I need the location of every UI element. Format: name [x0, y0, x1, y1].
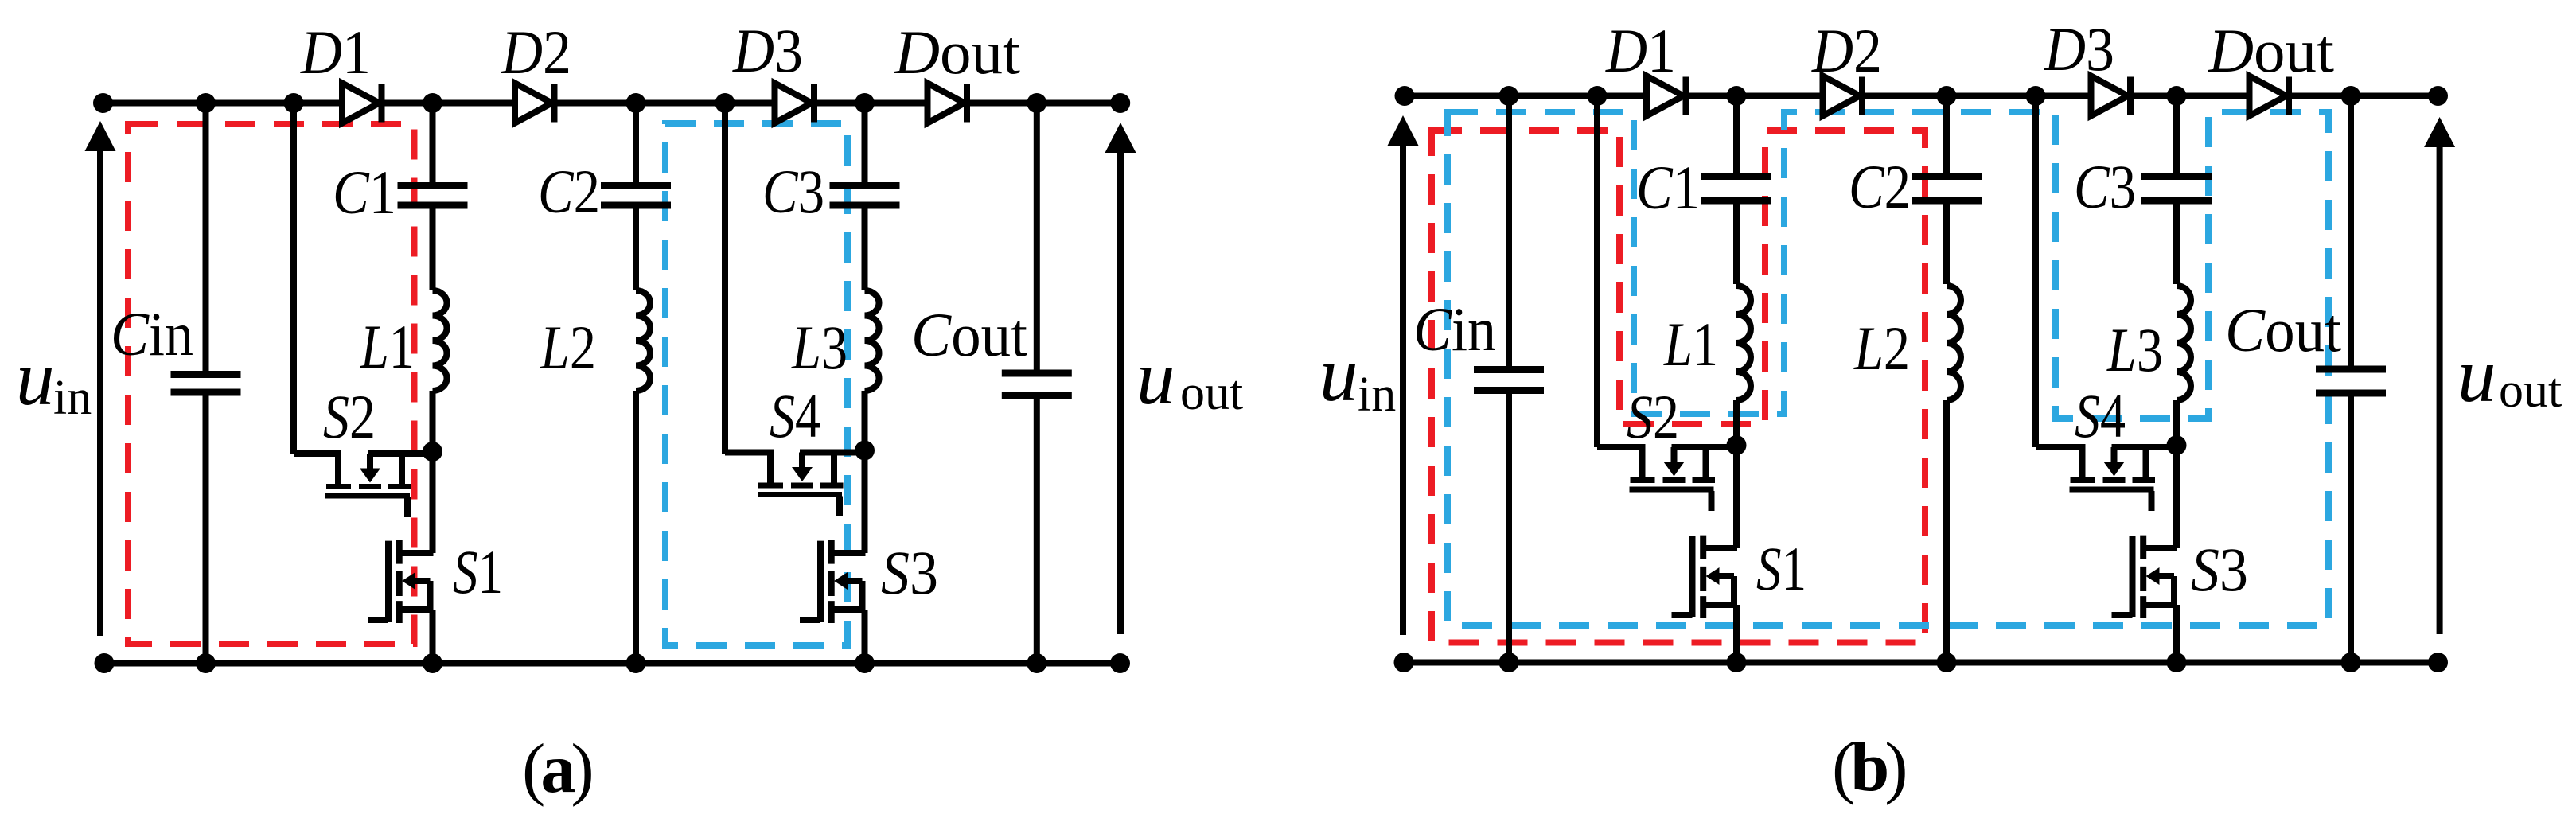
wire S2 branch (a): [290, 103, 297, 454]
wire C3 branch (a): [862, 103, 868, 451]
capacitor C2 (b): [1912, 173, 1982, 180]
junction top rail x=799 (a): [626, 93, 646, 113]
diode D3 (b): [2091, 76, 2129, 116]
diode D2 (a): [515, 84, 552, 123]
svg-text:C2: C2: [538, 157, 600, 226]
node S2-drain junction (a): [423, 442, 442, 462]
svg-text:C2: C2: [1849, 152, 1911, 221]
wire top rail (a): [103, 100, 1120, 107]
svg-text:u: u: [1136, 335, 1175, 420]
junction bottom rail x=3063.5 (b): [2428, 653, 2448, 672]
capacitor C1 (a): [398, 182, 468, 189]
junction top rail x=258.5 (a): [196, 93, 216, 113]
wire top rail (b): [1405, 93, 2438, 99]
inductor L1 (a): [433, 290, 447, 391]
u_out voltage arrow (a): [1105, 123, 1136, 153]
transistor S3 (b): [2173, 446, 2180, 549]
wire C2-L2 branch (b): [1943, 96, 1950, 663]
capacitor C1 (b): [1701, 173, 1771, 180]
svg-text:(b): (b): [1832, 729, 1905, 806]
capacitor Cout (a): [1002, 370, 1072, 377]
u_in voltage arrow (a): [85, 121, 116, 151]
junction top rail x=129.5 (a): [93, 93, 113, 113]
transistor S4 (b): [2112, 444, 2177, 450]
diode Dout (a): [928, 84, 965, 123]
diode D3 (a): [775, 84, 813, 123]
svg-text:C3: C3: [762, 157, 824, 226]
svg-text:u: u: [16, 336, 55, 421]
svg-text:Cin: Cin: [1413, 294, 1496, 364]
inductor L3 (a): [865, 290, 879, 391]
diode D1 (b): [1647, 76, 1684, 116]
wire Cin branch (a): [203, 103, 209, 664]
inductor L2 (a): [636, 290, 650, 391]
u_out voltage arrow (b): [2424, 117, 2455, 147]
svg-text:Dout: Dout: [2208, 16, 2334, 85]
wire C1 branch (b): [1733, 96, 1740, 446]
svg-text:Cout: Cout: [911, 300, 1027, 369]
capacitor C3 (a): [830, 182, 900, 189]
transistor S1 (a): [430, 452, 436, 554]
junction bottom rail x=2954 (b): [2341, 653, 2361, 672]
capacitor Cout (b): [2316, 366, 2386, 373]
svg-text:in: in: [53, 371, 92, 425]
red dashed loop (a): [128, 124, 415, 644]
junction bottom rail x=258.5 (a): [196, 653, 216, 673]
svg-text:u: u: [1319, 332, 1358, 417]
svg-text:L1: L1: [1663, 310, 1718, 379]
svg-text:out: out: [1180, 366, 1243, 420]
svg-text:D1: D1: [300, 18, 371, 87]
svg-text:C3: C3: [2074, 152, 2136, 221]
svg-text:(a): (a): [522, 730, 591, 808]
inductor L3 (b): [2177, 286, 2191, 400]
svg-text:D3: D3: [732, 16, 803, 85]
diode D2 (b): [1823, 76, 1861, 116]
svg-text:S4: S4: [770, 381, 820, 450]
svg-text:S1: S1: [453, 537, 503, 606]
junction top rail x=2954 (b): [2341, 86, 2361, 106]
junction top rail x=2007 (b): [1588, 86, 1608, 106]
svg-text:Cin: Cin: [111, 299, 193, 368]
u_in voltage arrow (b): [1388, 115, 1419, 146]
svg-text:L1: L1: [360, 312, 415, 381]
wire C3 branch (b): [2173, 96, 2180, 446]
junction bottom rail x=1896 (b): [1499, 653, 1519, 672]
transistor S1 (b): [1733, 446, 1740, 549]
svg-text:D2: D2: [501, 18, 571, 87]
node S4-drain junction (a): [855, 441, 875, 461]
wire S2 branch (b): [1594, 96, 1600, 448]
junction bottom rail x=2182 (b): [1727, 653, 1747, 672]
blue dashed loop (b): [1448, 112, 2329, 625]
svg-text:Dout: Dout: [894, 18, 1020, 87]
svg-text:S2: S2: [1627, 382, 1679, 451]
svg-text:L2: L2: [1853, 314, 1910, 383]
wire bottom rail (b): [1404, 660, 2438, 666]
junction top rail x=3063.5 (b): [2428, 86, 2448, 106]
junction top rail x=543.5 (a): [423, 93, 442, 113]
junction top rail x=1086.5 (a): [855, 93, 875, 113]
transistor S2 (a): [368, 450, 433, 457]
svg-text:D3: D3: [2044, 14, 2114, 84]
svg-text:out: out: [2499, 364, 2562, 418]
svg-text:S3: S3: [2191, 535, 2248, 604]
capacitor C3 (b): [2141, 173, 2212, 180]
svg-text:C1: C1: [333, 158, 396, 227]
inductor L1 (b): [1736, 286, 1751, 400]
junction top rail x=2182 (b): [1727, 86, 1747, 106]
wire C2-L2 branch (a): [633, 103, 639, 664]
wire S4 branch (b): [2032, 96, 2039, 448]
node S2-drain junction (b): [1727, 435, 1747, 455]
svg-text:u: u: [2457, 333, 2496, 418]
red dashed loop (b): [1432, 131, 1925, 643]
junction bottom rail x=1086.5 (a): [855, 653, 875, 673]
svg-text:C1: C1: [1636, 153, 1700, 222]
transistor S3 (a): [862, 450, 868, 553]
junction top rail x=1896 (b): [1499, 86, 1519, 106]
junction bottom rail x=1764 (b): [1394, 653, 1414, 672]
junction bottom rail x=799 (a): [626, 653, 646, 673]
svg-text:S4: S4: [2075, 381, 2126, 450]
wire Cout branch (b): [2348, 96, 2354, 663]
svg-text:L2: L2: [540, 313, 596, 382]
junction top rail x=2446 (b): [1937, 86, 1957, 106]
junction bottom rail x=1302.8 (a): [1027, 653, 1046, 673]
capacitor C2 (a): [601, 182, 671, 189]
diode Dout (b): [2250, 76, 2287, 116]
svg-text:L3: L3: [2106, 315, 2163, 384]
junction top rail x=2735 (b): [2167, 86, 2187, 106]
junction bottom rail x=2735 (b): [2167, 653, 2187, 672]
svg-text:Cout: Cout: [2225, 295, 2341, 364]
wire S4 branch (a): [722, 103, 728, 454]
capacitor Cin (a): [171, 371, 241, 378]
svg-text:D1: D1: [1605, 16, 1676, 85]
junction bottom rail x=131 (a): [95, 653, 115, 673]
node S4-drain junction (b): [2167, 435, 2187, 455]
transistor S4 (a): [800, 450, 865, 456]
blue dashed loop (a): [665, 123, 848, 645]
junction top rail x=1407.7 (a): [1110, 93, 1130, 113]
wire Cout branch (a): [1034, 103, 1040, 664]
junction top rail x=911 (a): [715, 93, 735, 113]
wire Cin branch (b): [1506, 96, 1512, 663]
wire bottom rail (a): [104, 660, 1120, 667]
junction top rail x=2558 (b): [2026, 86, 2046, 106]
svg-text:S1: S1: [1756, 534, 1806, 603]
junction top rail x=369 (a): [284, 93, 304, 113]
wire C1 branch (a): [430, 103, 436, 452]
diode D1 (a): [342, 84, 380, 123]
svg-text:S2: S2: [323, 382, 376, 451]
junction top rail x=1302.8 (a): [1027, 93, 1046, 113]
junction bottom rail x=1407.5 (a): [1110, 653, 1130, 673]
svg-text:D2: D2: [1811, 16, 1882, 85]
svg-text:in: in: [1358, 368, 1396, 422]
inductor L2 (b): [1947, 286, 1961, 400]
junction bottom rail x=543.5 (a): [423, 653, 442, 673]
transistor S2 (b): [1672, 444, 1737, 450]
junction bottom rail x=2446 (b): [1937, 653, 1957, 672]
capacitor Cin (b): [1474, 366, 1544, 373]
svg-text:L3: L3: [791, 313, 848, 382]
svg-text:S3: S3: [881, 538, 938, 607]
junction top rail x=1765 (b): [1395, 86, 1415, 106]
